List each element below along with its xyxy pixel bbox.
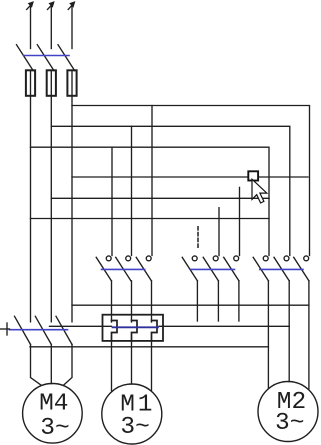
contactor K3 pole2 contact — [274, 256, 289, 281]
wire drop K2 pole3 (loose) — [239, 187, 241, 255]
motor M2 — [258, 382, 318, 442]
mouse cursor — [252, 179, 267, 203]
wire row E (L2 second bus) — [51, 197, 269, 199]
wire link relay to M2 phase2 (right segment) — [159, 325, 289, 327]
wire drop K2 pole2 (loose) — [218, 208, 220, 256]
wire link L3 to M2 phase3 — [72, 304, 309, 306]
wire row B (L2 bus) — [51, 126, 289, 255]
supply arrow L2 — [48, 1, 55, 48]
svg-text:3~: 3~ — [120, 414, 149, 441]
wire link L1 to M2 phase1 — [30, 346, 268, 348]
wire M2 phase1 — [267, 281, 269, 389]
wire L1 fuse feed — [30, 71, 32, 322]
disconnector switch Q0 coupling bar — [24, 55, 69, 57]
contactor K2 coupling bar — [191, 268, 235, 270]
wire K2 pole3 lower stub — [238, 281, 240, 321]
contactor K2 pole3 contact — [224, 256, 239, 281]
contactor K1 pole3 contact — [136, 256, 151, 281]
wire M2 phase2 — [288, 281, 290, 382]
supply arrow L1 — [27, 1, 34, 48]
contactor K3 pole1 contact — [253, 256, 268, 281]
wire M4 phase1 — [31, 344, 42, 385]
contactor K3 pole3 contact — [294, 256, 309, 281]
wire K1 pole1 to relay — [111, 281, 113, 322]
svg-text:3~: 3~ — [40, 415, 69, 442]
fuse F3 — [67, 70, 76, 96]
disconnector switch Q0 blade pole1 — [17, 45, 34, 71]
switch Q4 coupling bar — [10, 329, 68, 331]
wire drop K1 pole2 — [131, 126, 133, 255]
wire row A (L3 bus) — [72, 106, 310, 256]
contactor K2 pole2 contact — [203, 256, 218, 281]
contactor K3 coupling bar — [260, 268, 303, 270]
wire row D (L3 second bus) — [72, 176, 308, 178]
wire M2 phase3 — [308, 281, 310, 389]
relay F4 heater pole1 — [112, 321, 118, 342]
switch Q4 blade pole1 — [15, 316, 31, 344]
wire drop K1 pole1 — [111, 147, 113, 255]
switch Q4 blade pole3 — [56, 316, 72, 344]
wire M1 phase2 — [131, 341, 133, 384]
switch Q4 actuator terminal — [0, 323, 10, 335]
disconnector switch Q0 blade pole2 — [37, 45, 54, 71]
contactor K2 pole1 contact — [182, 256, 197, 281]
wire row F (L1 second bus) — [31, 218, 270, 220]
relay F4 trip linkage — [113, 326, 159, 328]
svg-text:M4: M4 — [39, 391, 68, 418]
wire drop K1 pole3 — [151, 106, 153, 256]
contactor K1 coupling bar — [102, 268, 145, 270]
relay F4 heater pole2 — [132, 321, 138, 342]
wire K2 pole2 lower stub — [217, 281, 219, 321]
relay F4 heater pole3 — [152, 321, 158, 342]
disconnector switch Q0 blade pole3 — [58, 45, 75, 71]
dashed wire K2 pole1 — [197, 227, 199, 250]
drag handle on row D — [248, 171, 258, 180]
switch Q4 blade pole2 — [35, 316, 51, 344]
contactor K1 pole2 contact — [116, 256, 131, 281]
wire L3 fuse feed — [71, 71, 73, 322]
thermal overload relay F4 box — [103, 315, 164, 341]
fuse F1 — [26, 70, 35, 96]
wire link L2 to relay (left segment) — [50, 325, 112, 327]
wire L2 fuse feed — [50, 71, 52, 322]
fuse F2 — [47, 70, 56, 96]
contactor K1 pole1 contact — [96, 256, 111, 281]
wire M1 phase1 — [111, 341, 113, 391]
svg-text:3~: 3~ — [275, 410, 304, 437]
motor M4 — [23, 384, 83, 444]
wire K1 pole3 to relay — [151, 281, 153, 322]
motor M1 — [102, 384, 162, 444]
supply arrow L3 — [68, 1, 75, 48]
wire M1 phase3 — [151, 341, 153, 390]
wire row C (L1 bus) — [31, 147, 270, 255]
wire K1 pole2 to relay — [131, 281, 133, 322]
wire M4 phase2 — [50, 344, 52, 383]
wire M4 phase3 — [63, 344, 72, 385]
wire K2 pole1 lower stub — [196, 281, 198, 321]
